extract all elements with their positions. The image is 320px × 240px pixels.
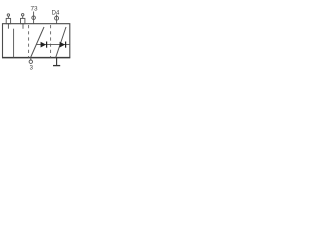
actuator S2: small square on top rail bbox=[21, 18, 25, 23]
svg-text:73: 73 bbox=[30, 5, 38, 12]
riser wire to label D4 bbox=[56, 15, 58, 24]
actuator S1 stalk bbox=[7, 16, 9, 18]
contact lever A bbox=[31, 27, 44, 58]
diode D2 triangle bbox=[60, 42, 65, 48]
diode D1 cathode bar bbox=[46, 42, 48, 48]
svg-text:D4: D4 bbox=[52, 10, 60, 16]
wire with diodes bbox=[36, 44, 70, 46]
pin below S2 bbox=[22, 24, 24, 29]
actuator S2 stalk bbox=[22, 16, 24, 18]
actuator S2 roller circle bbox=[22, 14, 24, 16]
lamp circle on riser 1 bbox=[32, 16, 36, 20]
diode D2 cathode bar bbox=[65, 42, 67, 48]
dashed divider 2 bbox=[50, 25, 52, 58]
riser wire to label 73 bbox=[33, 12, 35, 24]
contact lever B bbox=[56, 27, 66, 58]
lamp circle on riser 2 bbox=[55, 16, 59, 20]
dashed divider 1 bbox=[28, 25, 30, 58]
enclosure box (top rail, right edge, bottom edge, left edge) bbox=[3, 24, 70, 58]
enclosure bottom edge bbox=[2, 57, 70, 59]
earth bar bbox=[53, 65, 60, 67]
port stub below box (left) bbox=[30, 58, 32, 61]
actuator S1: small square on top rail bbox=[6, 18, 10, 23]
port circle bbox=[29, 60, 32, 63]
diode D1 triangle bbox=[41, 42, 46, 48]
actuator S1 roller circle bbox=[7, 14, 9, 16]
pin below S1 bbox=[7, 24, 9, 29]
interior solid vertical wire bbox=[13, 29, 15, 58]
earth lead bbox=[56, 58, 58, 66]
